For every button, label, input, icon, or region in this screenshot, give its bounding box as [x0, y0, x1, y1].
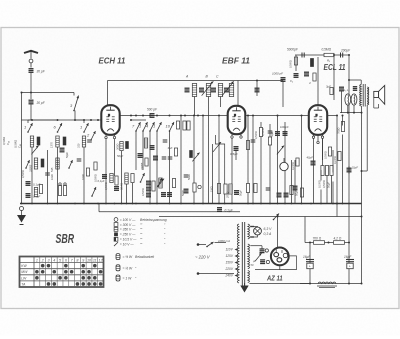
wire x57 gnd	[57, 147, 59, 204]
resistor ebf r	[246, 141, 249, 150]
capacitor az heater b	[260, 260, 265, 264]
legend row 350 V	[114, 228, 142, 232]
resistor pair a	[58, 186, 61, 196]
junction row a	[309, 242, 311, 244]
junction lamp bottom	[250, 236, 252, 238]
resistor fill b	[94, 162, 97, 170]
resistor left r4	[39, 185, 42, 194]
capacitor osc stack c	[146, 193, 151, 197]
junction gnd 27	[284, 203, 286, 205]
capacitor det extra	[293, 186, 298, 190]
svg-text:0,5µF: 0,5µF	[230, 152, 238, 156]
wire x349 mid	[348, 166, 350, 174]
svg-text:1370: 1370	[50, 142, 54, 148]
svg-text:30 pF: 30 pF	[37, 70, 46, 74]
svg-text:0,1MΩ: 0,1MΩ	[291, 162, 295, 170]
terminal pair a	[59, 183, 61, 185]
resistor ech5	[131, 174, 134, 183]
junction gnd 26	[277, 203, 279, 205]
resistor af6	[300, 188, 303, 197]
legend ditto 2	[141, 233, 143, 237]
capacitor 40uF ecl	[311, 161, 316, 165]
junction main line 9	[197, 115, 199, 117]
output transformer secondary winding	[367, 87, 369, 105]
wire grid line left	[22, 119, 102, 121]
svg-text:= 250 V —: = 250 V —	[120, 233, 136, 237]
mains terminal b	[197, 272, 200, 275]
wire second line	[131, 119, 146, 121]
junction gnd 18	[202, 203, 204, 205]
junction filt bottom a	[309, 283, 311, 285]
label rot 33055	[29, 164, 33, 172]
junction gnd 1	[31, 203, 33, 205]
label rot 1M ebf	[210, 186, 214, 192]
capacitor det4	[283, 132, 288, 136]
label C2	[290, 79, 294, 83]
junction gnd 11	[132, 203, 134, 205]
terminal circle b	[266, 260, 269, 263]
junction x277	[277, 115, 279, 117]
resistor mid	[176, 121, 179, 129]
wire ecl pin mid	[317, 135, 319, 141]
switch 1c	[139, 122, 148, 132]
capacitor osc stack a	[146, 181, 151, 185]
label rot det c1	[261, 128, 265, 136]
wire x342 v	[342, 116, 344, 126]
bus third	[159, 216, 362, 218]
switch 1d	[153, 122, 162, 132]
junction main line 8	[193, 115, 195, 117]
label 1000mA	[218, 239, 230, 243]
junction x248	[247, 115, 249, 117]
wire top-left bus	[21, 92, 74, 94]
svg-text:0,3 A: 0,3 A	[264, 232, 273, 236]
resistor ecl r6	[338, 152, 341, 161]
resistor ech3	[115, 176, 118, 185]
resistor right 3uF	[330, 88, 333, 95]
wire sw1 up	[27, 120, 29, 123]
capacitor mid3	[162, 157, 167, 159]
svg-text:4,2 Ω: 4,2 Ω	[334, 237, 342, 241]
wire x84 gnd	[83, 147, 85, 204]
wire sw1 link	[28, 119, 58, 121]
svg-text:0,5MΩ: 0,5MΩ	[254, 131, 258, 139]
wire az out v	[279, 265, 281, 269]
capacitor det3	[275, 132, 280, 136]
wire x333 v2	[332, 182, 334, 204]
svg-text:5090: 5090	[181, 190, 185, 196]
svg-text:1: 1	[36, 258, 38, 262]
legend row 250 V	[114, 232, 142, 236]
label can A	[185, 75, 189, 79]
potentiometer volume	[280, 162, 288, 170]
capacitor fill i	[60, 148, 65, 152]
svg-text:SBR: SBR	[56, 232, 75, 246]
wire x321 v2	[320, 190, 322, 204]
svg-text:= 1 W: = 1 W	[123, 277, 133, 281]
label rot bias a	[318, 180, 322, 188]
legend ditto 0	[141, 223, 143, 227]
junction filt bottom c	[361, 283, 363, 285]
chassis terminal	[20, 207, 24, 211]
legend ditto2 3	[164, 238, 166, 242]
junction gnd 3	[57, 203, 59, 205]
capacitor az heater a	[260, 249, 265, 253]
svg-text:9: 9	[82, 258, 84, 262]
svg-text:10µF: 10µF	[352, 166, 359, 170]
trimmer volume	[277, 146, 284, 155]
resistor ecl bias b	[325, 166, 328, 176]
switch 1 ant	[24, 123, 33, 133]
trimmer ant	[31, 146, 38, 155]
junction lamp b	[353, 112, 355, 114]
wire x296 v	[295, 55, 297, 71]
capacitor C2 left	[294, 74, 299, 78]
svg-text:0,1MΩ: 0,1MΩ	[318, 180, 322, 188]
wire EBF top cap	[237, 81, 239, 106]
junction gnd 0	[21, 203, 23, 205]
label 30pF	[37, 70, 46, 74]
coil IF C	[218, 84, 222, 97]
svg-text:150V: 150V	[226, 261, 234, 265]
label rot osc extra	[140, 162, 144, 170]
wire x349 rail	[348, 55, 350, 243]
label rot det extra	[295, 190, 299, 196]
resistor dark b	[63, 137, 66, 145]
svg-text:500 pF: 500 pF	[147, 108, 158, 112]
pin EBF 2	[240, 136, 242, 138]
wire x291 d	[291, 160, 293, 204]
output transformer core	[362, 84, 364, 107]
label 42ohm	[334, 237, 342, 241]
capacitor fill a	[77, 159, 82, 161]
svg-text:535: 535	[50, 167, 54, 172]
capacitor af2	[266, 188, 271, 190]
junction gnd 14	[156, 203, 158, 205]
wire ebf pin b	[240, 134, 242, 136]
wire az loop right	[255, 256, 296, 270]
label rot osc lower	[181, 190, 185, 196]
svg-text:1: 1	[80, 125, 82, 130]
svg-text:0,5MΩ: 0,5MΩ	[289, 60, 293, 68]
junction lamp a	[347, 112, 349, 114]
svg-text:110V: 110V	[226, 248, 234, 252]
label R2	[327, 59, 331, 63]
junction gnd 30	[310, 203, 312, 205]
svg-text:1090: 1090	[81, 174, 85, 180]
label rot fill c	[94, 174, 98, 182]
capacitor tr mid	[304, 72, 309, 76]
wire x285 d	[284, 122, 286, 204]
pin ECH 2	[113, 136, 115, 138]
label rot fill l	[81, 174, 85, 180]
label rot ebf extra	[226, 192, 230, 199]
junction gnd 28	[291, 203, 293, 205]
wire x84 up	[83, 120, 85, 123]
wire grid top run	[108, 80, 284, 82]
capacitor osc d	[161, 193, 166, 197]
junction x253	[252, 115, 254, 117]
resistor dark c	[41, 159, 44, 167]
switch 3 band	[70, 96, 79, 112]
capacitor 500pF	[150, 114, 155, 118]
capacitor 50uF right	[347, 168, 352, 172]
junction lamp c	[361, 112, 363, 114]
svg-text:= 100 V —: = 100 V —	[120, 218, 136, 222]
svg-text:3µF: 3µF	[168, 146, 173, 150]
svg-text:1000 pF: 1000 pF	[272, 72, 283, 76]
legend row 100 V	[114, 218, 167, 222]
junction main line 2	[142, 115, 144, 117]
coil mid	[144, 138, 147, 148]
svg-text:= 350 V —: = 350 V —	[120, 228, 136, 232]
trimmer mid	[192, 153, 199, 162]
wire x248 d	[247, 116, 249, 204]
coil ech cathode	[120, 142, 123, 151]
wire B+ row	[305, 242, 349, 244]
label AZ 11	[266, 274, 282, 283]
legend ditto 3	[141, 238, 143, 242]
wire sw3 up	[73, 93, 75, 96]
svg-text:LW: LW	[21, 276, 27, 280]
wire ECL pin b	[322, 135, 324, 160]
label rot ech osc	[104, 182, 108, 190]
wire mains b	[199, 273, 234, 275]
wire x47 gnd	[47, 150, 49, 204]
wire x181 d	[180, 116, 182, 204]
junction x337 main	[336, 115, 338, 117]
resistor ecl mid	[328, 147, 331, 156]
label 200uF	[340, 49, 351, 53]
label 0,5MOhm a	[322, 48, 332, 52]
coil antenna LW	[82, 136, 85, 147]
svg-text:250Ω: 250Ω	[226, 192, 230, 199]
junction bus3 right	[361, 216, 363, 218]
legend row 10 V	[114, 242, 142, 246]
capacitor osc extra	[150, 146, 155, 150]
junction gnd 24	[260, 203, 262, 205]
junction filt bottom b	[348, 283, 350, 285]
tube ECH11	[101, 105, 119, 135]
label 0,1uF b	[33, 195, 40, 199]
svg-text:16µF: 16µF	[344, 255, 352, 259]
capacitor 30pF antenna	[29, 69, 34, 73]
junction gnd 9	[121, 203, 123, 205]
svg-text:AZ 11: AZ 11	[266, 274, 282, 283]
legend ditto2 4	[164, 243, 166, 247]
label mains voltage	[195, 255, 211, 260]
junction main line 4	[156, 115, 158, 117]
label rot left margin2	[6, 140, 10, 145]
svg-text:11: 11	[93, 258, 97, 262]
wire filt a	[309, 243, 311, 284]
label 500pF	[147, 108, 158, 112]
label 3uF	[168, 146, 173, 150]
wire xfmr feed	[360, 80, 362, 85]
switch 4a	[146, 122, 155, 132]
label ECH 11	[99, 57, 126, 66]
svg-text:5090: 5090	[187, 174, 191, 180]
svg-text:700 Ω: 700 Ω	[313, 237, 322, 241]
wire topright bus	[295, 54, 349, 56]
wire main line	[120, 115, 338, 117]
label rot coil1	[14, 140, 18, 148]
label rot left margin	[2, 137, 6, 145]
wire x150 d	[149, 131, 151, 204]
svg-text:6,3 V: 6,3 V	[264, 227, 273, 231]
legend ditto 4	[141, 243, 143, 247]
terminal circle osc	[198, 185, 201, 188]
wire x257 drop	[256, 81, 258, 97]
wire lamp1 d	[347, 105, 349, 113]
junction x257 top	[256, 80, 258, 82]
capacitor 5000pF	[301, 53, 303, 58]
capacitor 0,1uF left	[26, 182, 31, 186]
svg-text:µF: µF	[253, 259, 256, 263]
resistor tr mid dark	[311, 59, 314, 67]
junction row b	[328, 242, 330, 244]
resistor fill k	[86, 168, 89, 176]
svg-text:1: 1	[24, 125, 26, 130]
pin EBF 1	[231, 136, 233, 138]
wire ECL top cap	[317, 57, 319, 105]
svg-text:220V: 220V	[225, 267, 234, 271]
wire antenna drop	[30, 73, 32, 99]
label EBF 11	[222, 57, 250, 66]
svg-text:50µF: 50µF	[239, 190, 243, 196]
switch 7b	[68, 160, 72, 169]
label rot 535	[50, 167, 54, 172]
trimmer az hum	[255, 253, 261, 261]
legend power row ½ W	[116, 265, 137, 271]
junction gnd 31	[320, 203, 322, 205]
capacitor pad	[45, 173, 50, 175]
power transformer HT winding	[248, 244, 250, 269]
junction gnd 8	[114, 203, 116, 205]
coil osc MW	[56, 158, 59, 169]
wire pin ech b	[114, 135, 116, 137]
legend row 10,5 V	[114, 237, 142, 241]
trimmer IF D	[222, 81, 234, 95]
junction x349 top	[348, 54, 350, 56]
switch 1b	[80, 123, 89, 133]
capacitor xfmr top	[353, 87, 357, 91]
wire x333 v	[332, 150, 334, 173]
coil ech2	[110, 174, 113, 183]
lamp terminals	[252, 226, 254, 228]
wire x321 v	[320, 170, 322, 181]
label rot left extra	[21, 170, 25, 178]
junction x219	[218, 115, 220, 117]
junction gnd 13	[149, 203, 151, 205]
ground symbol	[17, 215, 26, 223]
junction gnd 25	[269, 203, 271, 205]
junction lamp top	[250, 226, 252, 228]
switch 10a	[166, 122, 175, 132]
wire can A down	[194, 97, 196, 116]
svg-text:MW: MW	[21, 270, 28, 274]
junction second line	[130, 119, 132, 121]
capacitor trim1	[87, 140, 92, 142]
capacitor 16uF second	[346, 259, 354, 261]
junction sec merge	[361, 170, 363, 172]
svg-text:= ½ W: = ½ W	[123, 255, 134, 259]
wire x169 d	[169, 131, 171, 204]
svg-text:L₁ L₂: L₁ L₂	[344, 88, 349, 92]
label 1000pF	[272, 72, 283, 76]
svg-text:4: 4	[53, 258, 55, 262]
svg-text:0,5MΩ: 0,5MΩ	[322, 180, 326, 188]
junction gnd 35	[348, 203, 350, 205]
junction az rail	[277, 216, 279, 218]
junction gnd 16	[180, 203, 182, 205]
wire sec down	[361, 106, 363, 284]
resistor pair can b	[187, 121, 190, 130]
resistor 700ohm	[314, 241, 325, 245]
label lamps	[344, 88, 349, 92]
svg-text:33055: 33055	[140, 162, 144, 170]
svg-text:Belastbarkeit: Belastbarkeit	[135, 255, 155, 259]
svg-text:125V: 125V	[226, 254, 234, 258]
svg-text:0,5MΩ: 0,5MΩ	[21, 170, 25, 178]
legend ditto2 1	[164, 228, 166, 232]
label 6,3V	[264, 227, 273, 231]
resistor tr mid2	[313, 73, 316, 81]
svg-text:50pF: 50pF	[117, 154, 123, 158]
svg-text:1000pF: 1000pF	[280, 126, 289, 129]
resistor ebf r2	[217, 184, 220, 194]
junction grid mid	[57, 119, 59, 121]
resistor osc r	[152, 181, 155, 191]
legend ditto 1	[141, 228, 143, 232]
wire x334 v	[333, 55, 335, 100]
wire x219 d	[218, 116, 220, 204]
resistor af5	[290, 186, 293, 195]
wire lamp loop	[251, 226, 258, 229]
switch 7c	[132, 122, 141, 132]
wire x84 link	[75, 119, 84, 121]
coil osc KW	[34, 158, 37, 169]
capacitor ech4	[114, 187, 119, 191]
wire bus hook	[98, 204, 100, 212]
resistor mid dark	[190, 151, 193, 158]
power transformer primary winding	[237, 224, 239, 283]
svg-text:30 pF: 30 pF	[37, 101, 46, 105]
resistor af1	[254, 184, 257, 193]
label rot det1	[254, 131, 258, 139]
svg-text:50pF: 50pF	[270, 131, 274, 137]
junction x337 gnd	[336, 203, 338, 205]
capacitor 200uF	[340, 53, 342, 58]
svg-text:40µF: 40µF	[307, 156, 314, 160]
junction fill g	[90, 119, 92, 121]
capacitor osc stack b	[146, 187, 151, 191]
svg-text:= 10,5 V —: = 10,5 V —	[120, 238, 137, 242]
pin ECL mid	[317, 141, 319, 143]
label rot tr left	[289, 60, 293, 68]
switch 7a	[25, 160, 29, 169]
resistor det1	[259, 128, 262, 137]
label rot det upper	[291, 162, 295, 170]
junction x342	[342, 115, 344, 117]
loudspeaker	[374, 91, 379, 97]
capacitor osc g	[184, 175, 189, 177]
junction grid left	[97, 119, 99, 121]
capacitor IF B	[199, 88, 204, 92]
coil antenna MW	[56, 136, 59, 147]
legend ditto2 2	[164, 233, 166, 237]
wire az bottom long	[249, 283, 311, 285]
